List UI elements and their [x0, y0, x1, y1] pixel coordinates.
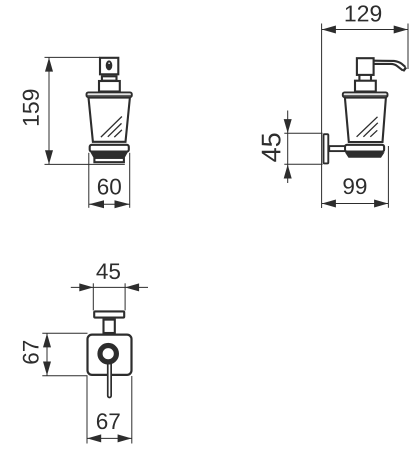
label 45 side [262, 133, 281, 161]
dim 45 side top extension line [284, 132, 322, 134]
dim 67 bottom arrow right [118, 434, 132, 442]
dim 45 side bottom extension line [284, 163, 322, 165]
pump head side [357, 58, 374, 75]
dim 60 dimension line [89, 203, 130, 205]
dim 45 top arrow pointing left [125, 283, 139, 291]
pump head front [100, 58, 118, 75]
label 67 bottom [97, 413, 120, 429]
dim 129 arrow left [322, 26, 336, 34]
dim 159 arrow up [45, 58, 53, 72]
holder ring shadow stripe side [345, 152, 385, 157]
dim 67 left bottom extension line [42, 375, 87, 377]
dim 45 top arrow pointing right [79, 283, 93, 291]
dim 67 bottom right extension line [131, 376, 133, 444]
dim 60 left extension line [88, 153, 90, 208]
dim 45 side arrow up [284, 165, 292, 179]
pump collar front [99, 81, 120, 92]
dim 67 left dimension line [46, 333, 48, 376]
dim 45 top right extension line [124, 283, 126, 310]
dim 99 right extension line [387, 146, 389, 208]
bottle rim side [343, 92, 388, 97]
nozzle opening [106, 60, 113, 70]
pump spout tip face [403, 67, 406, 71]
pump spout top wall [375, 61, 406, 67]
dim 67 bottom dimension line [87, 437, 132, 439]
glass hatch front [101, 117, 122, 138]
dim 67 left arrow up [43, 333, 51, 347]
dim 67 left arrow down [43, 362, 51, 376]
bottle body front [89, 98, 130, 142]
wall reference line [321, 24, 323, 209]
nozzle highlight [108, 62, 110, 64]
bracket wall plate side [324, 134, 329, 163]
pump neck front [102, 76, 117, 80]
dim 99 arrow right [374, 200, 388, 208]
label 45 top view [96, 263, 120, 279]
dim 159 bottom extension line [45, 163, 125, 165]
dim 60 right extension line [129, 153, 131, 208]
holder ring band side [345, 145, 384, 152]
bottle rim inner line side [344, 94, 387, 96]
dim 129 right extension line [407, 24, 409, 70]
dim 45 top dimension line [71, 286, 148, 288]
label 60 [98, 179, 121, 195]
bottle rim front [87, 92, 132, 97]
wall plate top view [94, 311, 124, 317]
pump neck side [359, 75, 371, 81]
pump collar side [355, 81, 376, 92]
dim 67 bottom arrow left [87, 434, 101, 442]
dim 99 arrow left [322, 200, 336, 208]
bottle rim inner line front [87, 94, 131, 96]
dim 60 arrow right [115, 200, 130, 208]
holder ring shadow stripe front [90, 152, 127, 157]
bracket arm side [329, 146, 345, 151]
pump spout bottom wall [375, 64, 403, 71]
dim 45 side dimension line [287, 111, 289, 184]
holder ring top view [100, 346, 116, 362]
bottle body side [345, 98, 386, 142]
label 129 [346, 5, 382, 21]
dim 159 dimension line [48, 57, 50, 164]
holder body top view [88, 335, 132, 375]
label 67 left [23, 341, 39, 364]
spout top view [108, 359, 111, 398]
label 99 [343, 178, 366, 194]
dim 60 arrow left [89, 200, 104, 208]
dim 67 left top extension line [42, 332, 87, 334]
dim 99 dimension line [322, 203, 389, 205]
dim 67 bottom left extension line [86, 376, 88, 444]
label 159 [23, 90, 39, 126]
bracket stem top view [104, 320, 115, 333]
glass hatch side [357, 117, 378, 137]
dim 45 side arrow down [284, 119, 292, 133]
bottle base front [94, 158, 124, 162]
dim 45 top left extension line [92, 283, 94, 310]
dim 159 top extension line [45, 56, 101, 58]
holder ring band front [90, 145, 129, 152]
dim 159 arrow down [45, 150, 53, 164]
dim 129 arrow right [394, 26, 408, 34]
dim 129 dimension line [322, 29, 408, 31]
